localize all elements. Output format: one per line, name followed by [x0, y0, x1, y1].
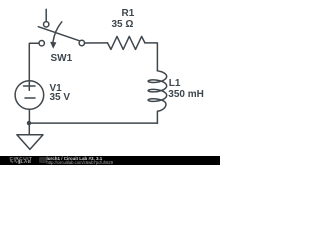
switch SW1 right terminal circle — [79, 40, 84, 45]
label R1 — [122, 8, 135, 19]
node junction dot — [27, 121, 31, 125]
watermark fork icon — [39, 157, 47, 164]
label SW1 — [51, 53, 73, 64]
voltage source V1 — [15, 81, 44, 110]
label V1 — [50, 83, 62, 94]
ground — [17, 123, 43, 149]
wire bottom rail — [29, 122, 157, 124]
wire switch top stub — [45, 9, 47, 21]
watermark CircuitLab logo — [10, 157, 33, 162]
wire switch right terminal to R1 — [85, 42, 108, 44]
resistor R1 — [108, 36, 145, 49]
label L1 value — [168, 89, 204, 100]
label V1 value — [50, 92, 71, 103]
inductor L1 — [148, 71, 167, 123]
watermark title text — [47, 156, 103, 161]
switch SW1 — [38, 9, 84, 49]
switch SW1 lever — [38, 27, 79, 41]
switch SW1 left terminal circle — [39, 41, 44, 46]
label L1 — [169, 78, 181, 89]
watermark bar — [0, 156, 220, 166]
label R1 value — [112, 19, 134, 30]
switch SW1 actuation arrow — [53, 22, 62, 42]
wire V1 bottom to ground node — [28, 109, 30, 123]
wire from switch left terminal to V1 top — [29, 43, 39, 80]
switch SW1 pivot terminal circle — [44, 22, 49, 27]
watermark url text — [47, 160, 114, 165]
wire R1 to top right corner down to L1 — [145, 43, 158, 71]
